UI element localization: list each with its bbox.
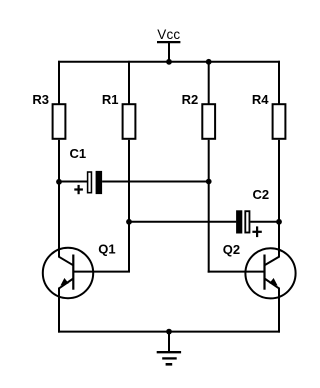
capacitor C1 negative plate xyxy=(96,171,103,194)
capacitor C2 positive plate xyxy=(245,211,249,232)
svg-text:R4: R4 xyxy=(252,92,269,107)
svg-text:R1: R1 xyxy=(102,92,119,107)
wire R1 node to Q1 base xyxy=(73,221,129,272)
transistor Q1 xyxy=(43,248,93,298)
wire R4 lower lead to Q2 collector xyxy=(278,140,280,258)
wire R2 node to Q2 base bar xyxy=(208,271,265,273)
resistor R4 xyxy=(273,104,286,139)
wire R4 upper lead xyxy=(278,61,280,104)
wire R3 upper lead xyxy=(58,61,60,104)
wire bottom rail xyxy=(58,331,280,333)
junction dot R3/C1 node xyxy=(56,179,62,185)
resistor R3 xyxy=(53,104,66,139)
polarity mark C1 plus xyxy=(74,185,83,194)
polarity mark C2 plus xyxy=(252,226,261,237)
wire C2 right lead to R4 node xyxy=(250,221,279,223)
svg-text:Q2: Q2 xyxy=(223,242,240,257)
svg-text:Vcc: Vcc xyxy=(157,27,180,42)
svg-text:C2: C2 xyxy=(253,187,270,202)
wire R3 lower lead to Q1 collector xyxy=(58,140,60,258)
junction dot R2/top rail xyxy=(206,59,212,65)
ground xyxy=(157,332,181,365)
transistor Q2 xyxy=(245,248,295,298)
svg-text:R2: R2 xyxy=(182,92,199,107)
capacitor C1 positive plate xyxy=(88,172,92,193)
wire C1 left lead xyxy=(59,181,88,183)
svg-text:R3: R3 xyxy=(32,92,49,107)
resistor R1 xyxy=(123,104,136,139)
svg-text:C1: C1 xyxy=(70,146,87,161)
junction dot ground/bottom rail xyxy=(166,329,172,335)
wire R1 upper lead xyxy=(128,61,130,104)
junction dot Vcc/top rail xyxy=(166,59,172,65)
wire R2 lower lead to Q2 base xyxy=(208,140,210,273)
junction dot C2/R4 node xyxy=(276,219,282,225)
wire top rail xyxy=(58,61,280,63)
wire R1 lower lead xyxy=(128,140,130,222)
wire C2 left lead xyxy=(129,221,236,223)
junction dot R1/C2 node xyxy=(126,219,132,225)
svg-text:Q1: Q1 xyxy=(98,241,115,256)
junction dot C1/R2 node xyxy=(206,179,212,185)
wire Q1 emitter xyxy=(58,288,60,333)
wire R2 upper lead xyxy=(208,61,210,104)
capacitor C2 negative plate xyxy=(236,210,242,233)
resistor R2 xyxy=(202,104,215,139)
wire C1 right lead to R2 node xyxy=(102,181,209,183)
wire Q2 emitter xyxy=(278,288,280,333)
power symbol Vcc xyxy=(157,27,180,62)
